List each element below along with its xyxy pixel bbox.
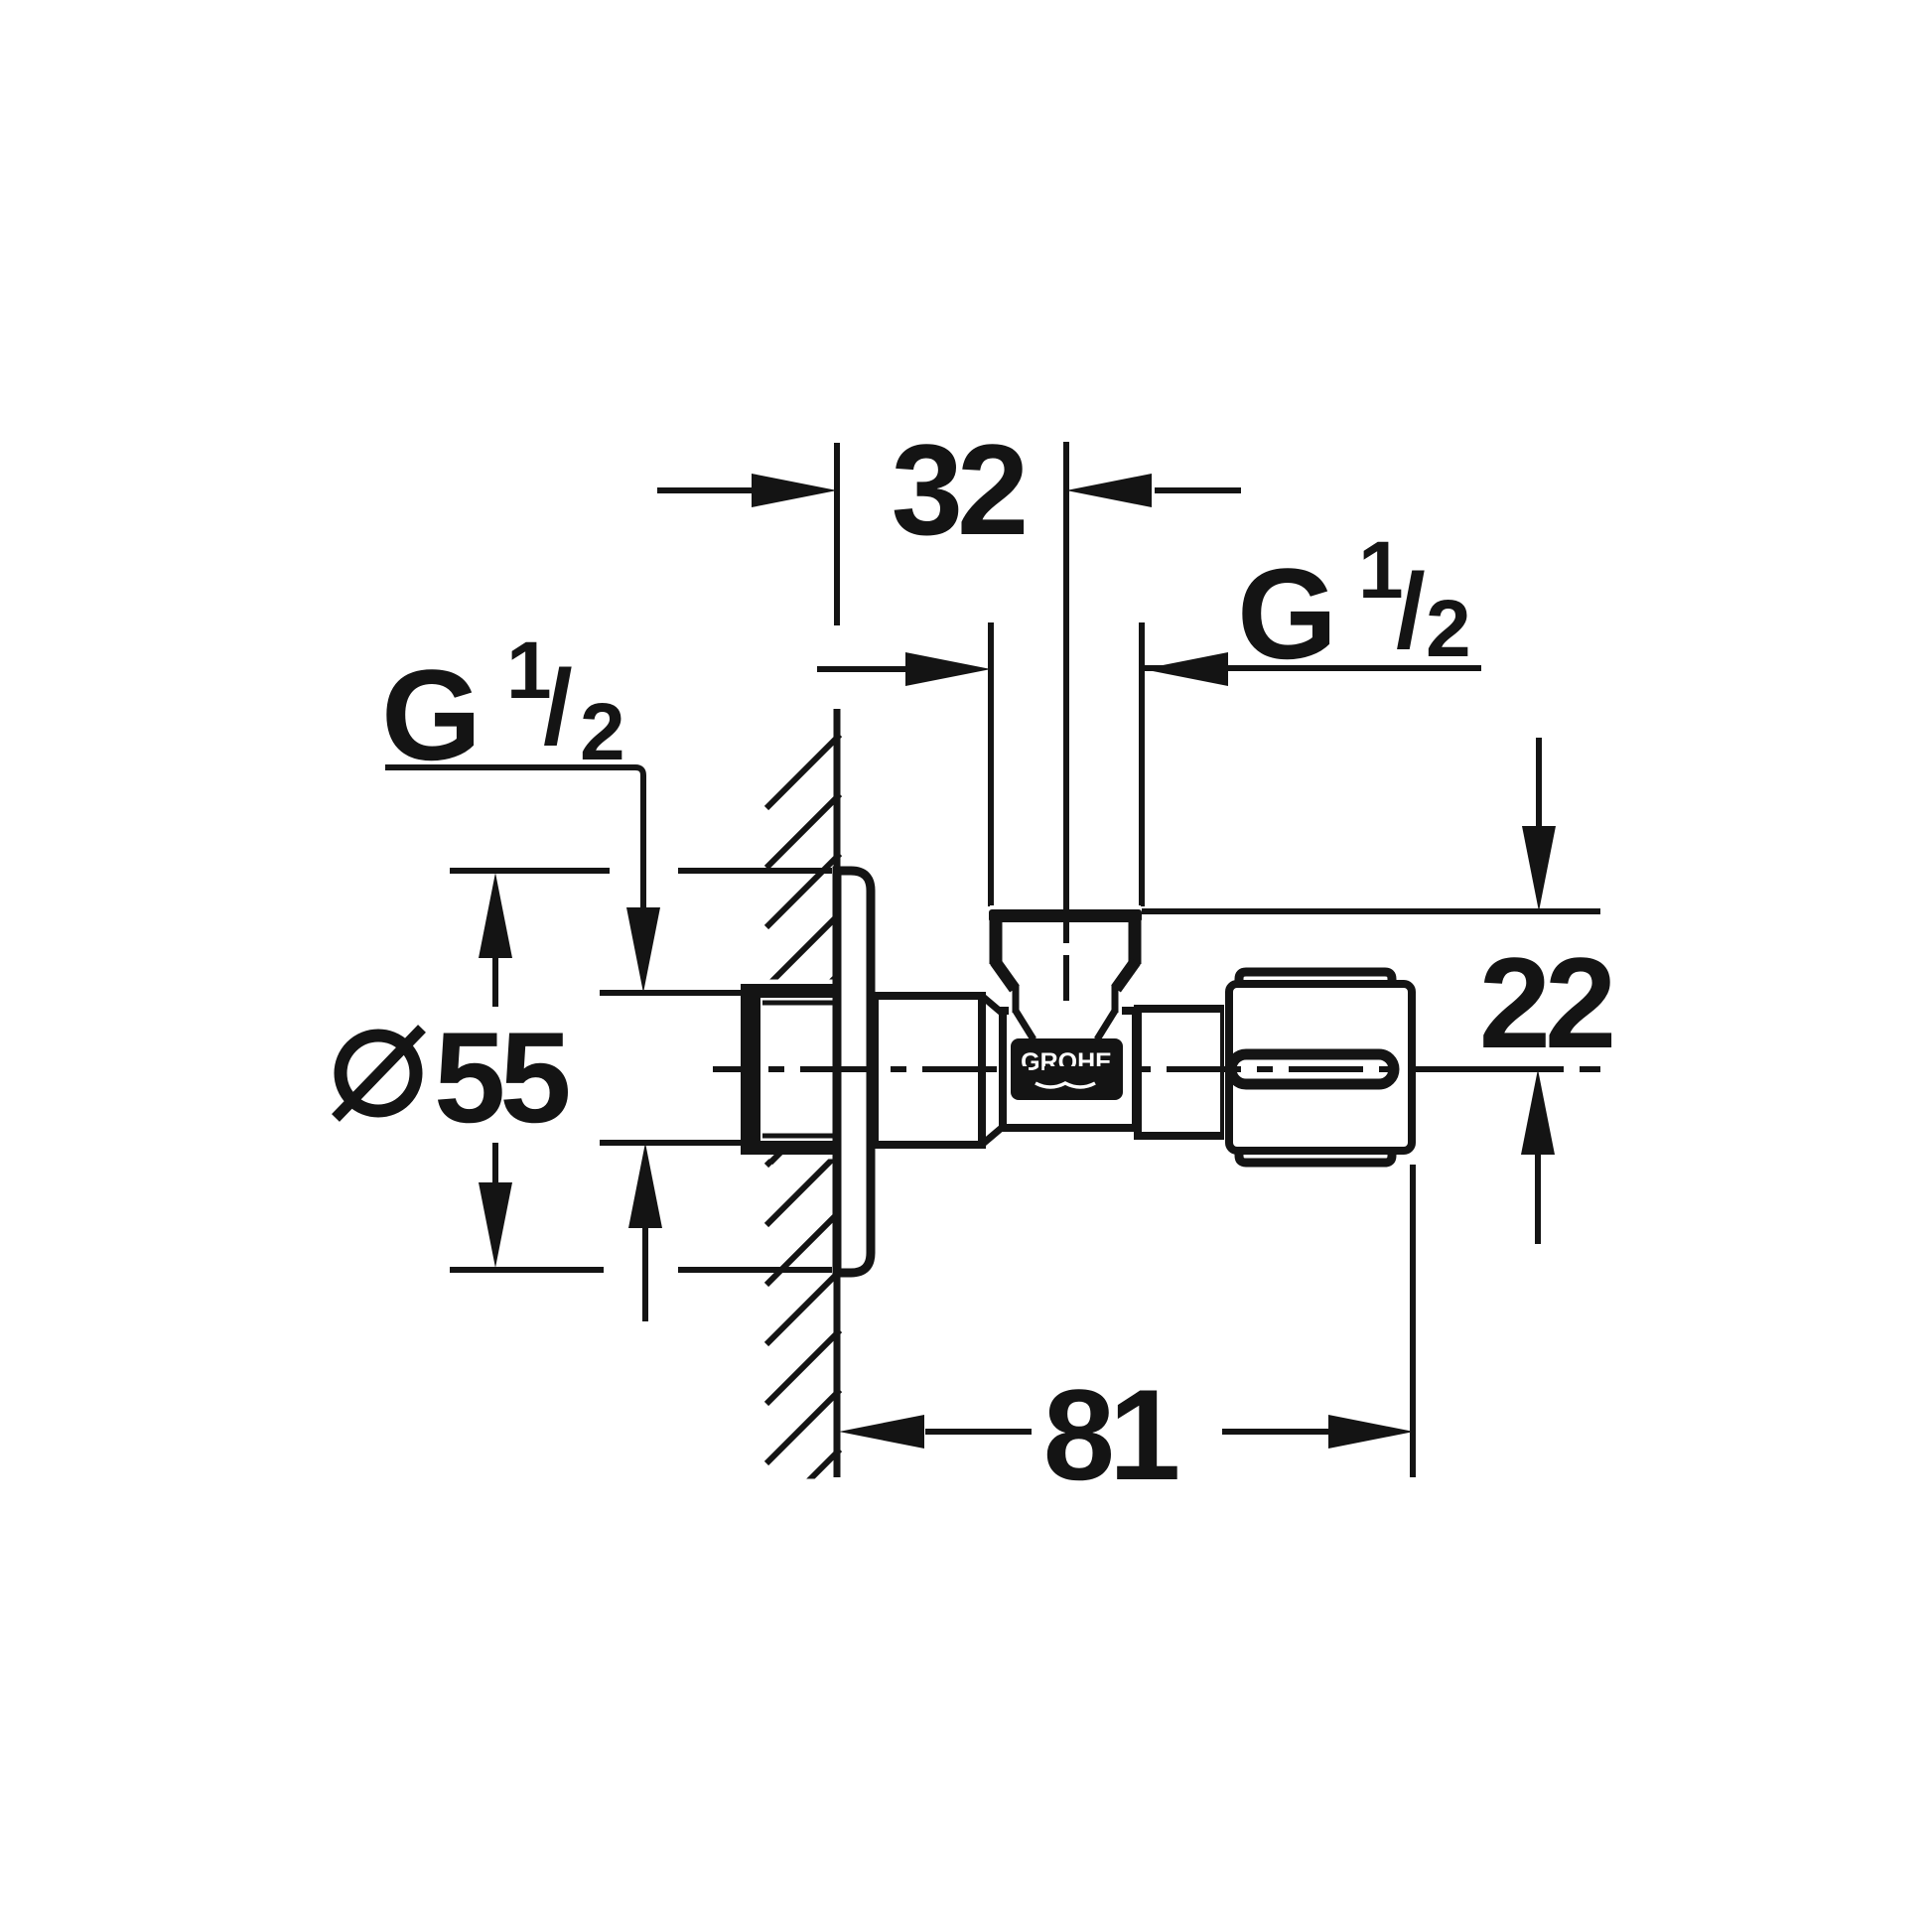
dimension O55: extension lines [450, 868, 610, 874]
svg-text:/: / [543, 647, 573, 766]
wall hatching [766, 735, 840, 1523]
svg-text:22: 22 [1479, 930, 1612, 1075]
flange escutcheon [837, 871, 871, 1273]
svg-text:55: 55 [434, 1005, 568, 1150]
label G1/2 left: leader [385, 767, 643, 907]
svg-text:/: / [1396, 551, 1426, 670]
label G1/2 left: extension lines of inlet thread [600, 990, 743, 996]
GROHE logo box [1011, 1038, 1123, 1100]
knob outline [1229, 984, 1412, 1151]
chamfer cylinder to body [983, 997, 1003, 1014]
dimension O55: dimension line and arrows [479, 873, 512, 958]
dimension 22: arrows [1536, 738, 1542, 830]
extension line of dimension 32 at wall [834, 443, 840, 625]
dimension 22: top extension line [1142, 908, 1600, 914]
top outlet chamfer [995, 961, 1015, 989]
dimension 32 [657, 487, 758, 493]
right cylinder [1138, 1009, 1224, 1136]
valve body [1003, 1011, 1136, 1128]
svg-text:81: 81 [1043, 1362, 1177, 1507]
svg-text:32: 32 [892, 417, 1025, 562]
vertical centerline of top outlet (32 right extension) [1063, 442, 1069, 943]
dimension 81 [925, 1429, 1032, 1435]
top outlet funnel white underlay [990, 905, 1141, 1015]
inlet thread behind wall [741, 984, 837, 1163]
wall line [834, 709, 841, 1477]
svg-text:2: 2 [580, 687, 625, 777]
dimension G1/2 top: arrows [817, 666, 905, 672]
horizontal centerline [713, 1066, 1600, 1072]
svg-text:2: 2 [1426, 584, 1471, 674]
dimension G1/2 top: extension lines [988, 622, 994, 906]
text O55 [336, 1029, 422, 1118]
top outlet neck [1013, 986, 1020, 1013]
knob white underlay [1224, 972, 1412, 1163]
top outlet thread collar [989, 909, 1142, 922]
svg-text:G: G [381, 642, 482, 787]
left cylinder (wall union) [875, 996, 982, 1145]
knob slot [1231, 1054, 1394, 1084]
V funnel to logo [1016, 1011, 1034, 1039]
svg-text:G: G [1237, 541, 1337, 686]
